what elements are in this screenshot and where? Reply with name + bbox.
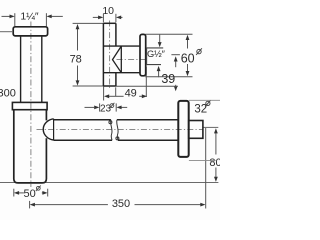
svg-text:300: 300 [0,88,16,100]
svg-text:60: 60 [181,51,195,65]
svg-text:80: 80 [209,157,220,169]
svg-text:50: 50 [23,188,35,200]
svg-text:350: 350 [112,198,130,210]
svg-text:G½″: G½″ [147,49,166,59]
svg-text:39: 39 [161,72,175,86]
svg-text:10: 10 [102,5,114,17]
svg-text:78: 78 [70,54,82,66]
svg-text:32: 32 [194,104,207,116]
svg-text:49: 49 [125,88,137,100]
svg-text:1¼″: 1¼″ [20,10,39,22]
